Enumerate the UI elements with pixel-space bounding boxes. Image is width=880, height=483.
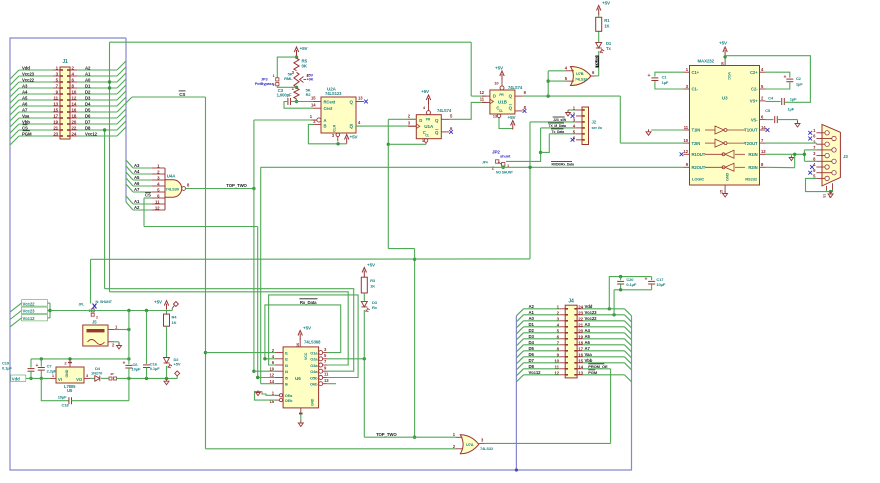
wire U7A out to PROM_OE — [484, 369, 611, 444]
svg-text:D6: D6 — [85, 113, 91, 118]
svg-text:D1: D1 — [85, 83, 91, 88]
diode D4 1N270 — [90, 366, 109, 381]
svg-text:A7: A7 — [585, 346, 591, 351]
wire TOP_TWO jog — [388, 249, 416, 439]
svg-text:16: 16 — [721, 62, 725, 66]
capacitor C17 10uF — [614, 277, 666, 315]
svg-text:+: + — [36, 363, 39, 369]
svg-text:10: 10 — [684, 138, 689, 143]
svg-text:+: + — [648, 73, 651, 79]
capacitor C6 10uF — [123, 311, 141, 379]
ground at J2 pin1 — [566, 110, 577, 116]
svg-text:11: 11 — [54, 96, 59, 101]
svg-text:D5: D5 — [85, 107, 91, 112]
wire OEa OEb tie — [255, 390, 275, 400]
power +5V above U6 — [298, 326, 312, 340]
ground below U3 — [723, 191, 728, 197]
svg-text:+5V: +5V — [421, 89, 430, 94]
svg-text:VCC: VCC — [304, 352, 308, 360]
svg-text:14: 14 — [761, 125, 766, 130]
svg-text:+0K: +0K — [307, 78, 314, 82]
svg-text:A3: A3 — [22, 83, 28, 88]
no-connect X J3 pin1 — [808, 131, 812, 135]
connector J3 DB9 — [813, 124, 848, 197]
wire shunt net y259 — [91, 259, 531, 304]
capacitor C20 0.1uF — [609, 275, 651, 309]
resistor R4 1K — [164, 311, 178, 327]
wire R1IN to J3 pins7 8 — [766, 150, 817, 161]
svg-text:+: + — [784, 75, 787, 81]
svg-text:1µF: 1µF — [662, 80, 669, 85]
svg-text:20: 20 — [72, 120, 77, 125]
wire J3 pin5 ground loop — [806, 178, 834, 197]
svg-text:RML: RML — [284, 76, 293, 81]
svg-text:1µF: 1µF — [790, 96, 797, 101]
resistor R5 0K — [294, 58, 308, 70]
net label CS (top) — [126, 91, 206, 103]
no-connect X on U2A Q pin13 — [364, 100, 368, 104]
wire O3a loop to J1 Vcc12 — [110, 292, 349, 365]
svg-text:U5: U5 — [67, 388, 73, 393]
wire U1B pin13 to +5V — [499, 115, 517, 130]
svg-text:Vcc23: Vcc23 — [22, 71, 35, 76]
svg-text:12: 12 — [155, 206, 160, 211]
LED D2 +5V — [164, 326, 181, 378]
svg-text:Vaa: Vaa — [585, 352, 593, 357]
svg-text:OEb: OEb — [285, 399, 293, 403]
svg-text:D2: D2 — [529, 328, 535, 333]
test pad on rail — [167, 302, 179, 311]
flip-flop U1A 74LS74 — [408, 104, 453, 144]
net labels Vcc22 Vcc23 Vcc12 with bus entries — [10, 300, 50, 327]
wire O2a to D3 — [327, 357, 366, 360]
wire I1 stub — [206, 352, 275, 354]
svg-text:+5V: +5V — [602, 1, 611, 6]
svg-text:TX_M_Data: TX_M_Data — [549, 124, 567, 128]
svg-text:+5V: +5V — [719, 41, 728, 46]
wire U1A D to TOP_TWO net — [387, 119, 417, 248]
wire I4 stub — [254, 370, 275, 372]
svg-text:CS: CS — [145, 193, 151, 198]
svg-text:17: 17 — [53, 114, 58, 119]
svg-text:22: 22 — [72, 126, 77, 131]
svg-text:VS+: VS+ — [750, 99, 758, 104]
svg-text:+5V: +5V — [367, 263, 376, 268]
ground below D2 column — [164, 379, 169, 385]
svg-text:B: B — [324, 124, 327, 129]
svg-text:15: 15 — [311, 95, 316, 100]
ground below U6 — [298, 412, 303, 427]
svg-text:R1IN: R1IN — [748, 152, 757, 157]
no-connect X on U1A pin6 — [449, 130, 453, 134]
or-gate U7A 74LS32 — [453, 432, 494, 454]
power +5V above U3 — [719, 41, 728, 60]
svg-text:J1: J1 — [62, 59, 68, 65]
svg-text:R1OUT: R1OUT — [692, 152, 706, 157]
wire J2 pin4 TX_M_Data net — [506, 123, 576, 161]
svg-text:U1B: U1B — [498, 100, 508, 105]
svg-text:1: 1 — [273, 74, 275, 78]
svg-text:+5V: +5V — [174, 361, 181, 366]
svg-text:D8: D8 — [529, 364, 535, 369]
svg-text:A0: A0 — [85, 77, 91, 82]
svg-text:O3a: O3a — [310, 363, 318, 368]
svg-text:T2OUT: T2OUT — [744, 141, 758, 146]
svg-text:T2IN: T2IN — [692, 141, 701, 146]
wire R2OUT/RXD0 Rx net — [261, 161, 684, 383]
svg-text:10µF: 10µF — [58, 394, 67, 399]
svg-text:T1IN: T1IN — [692, 128, 701, 133]
wire J2 pin3 J23_s/W net — [530, 117, 576, 259]
svg-text:U4A: U4A — [167, 174, 176, 179]
power +5V on rail — [154, 299, 169, 309]
svg-text:A6: A6 — [585, 340, 591, 345]
svg-text:PGM: PGM — [588, 370, 598, 375]
svg-text:1K: 1K — [172, 320, 177, 325]
wire top rail down to U1B D — [471, 42, 486, 96]
IC U3 MAX232 — [684, 59, 767, 195]
svg-text:JPL: JPL — [78, 303, 84, 307]
svg-text:74LS368: 74LS368 — [304, 340, 321, 345]
svg-text:A4: A4 — [585, 328, 591, 333]
J4 right net labels Vdd Vcc23 Vcc22 A3-A7 Vaa Vbb PROM_OE PGM with bus entries — [583, 304, 632, 382]
svg-text:D: D — [419, 118, 422, 123]
svg-text:14: 14 — [270, 379, 275, 384]
capacitor C3 1000pF — [277, 88, 313, 108]
svg-text:O2a: O2a — [310, 357, 318, 362]
svg-text:shunt: shunt — [500, 154, 511, 159]
svg-text:10µF: 10µF — [656, 282, 665, 287]
svg-text:+: + — [645, 277, 648, 283]
svg-text:Vaa: Vaa — [22, 113, 30, 118]
svg-text:JP: JP — [110, 372, 114, 376]
wire net D8 down — [103, 128, 106, 288]
svg-text:Vbb: Vbb — [22, 119, 30, 124]
svg-text:13: 13 — [358, 95, 363, 100]
svg-text:74LS74: 74LS74 — [437, 108, 452, 113]
U4A input net labels A3-A7 A1 A2 with bus entries — [126, 160, 152, 210]
capacitor C7 2.2uF — [36, 359, 58, 380]
capacitor C5 1uF — [765, 107, 800, 128]
svg-text:A0: A0 — [529, 316, 535, 321]
connector J2 ser i/o — [573, 106, 603, 145]
wire TOP_TWO down to U6 I4 — [252, 189, 255, 373]
svg-text:GND: GND — [726, 173, 730, 181]
svg-text:C1: C1 — [662, 75, 668, 80]
connector J1 — [53, 59, 77, 139]
svg-text:A7: A7 — [22, 107, 28, 112]
jumper JP3 PotBypass — [255, 57, 297, 87]
no-connect X on J2 pin2 — [571, 114, 575, 118]
bus J1-J4 address/data bus (blue) — [10, 38, 632, 472]
svg-text:NO SHUNT: NO SHUNT — [496, 171, 514, 175]
wire TOP_TWO bottom — [364, 359, 456, 437]
svg-text:A1: A1 — [85, 71, 91, 76]
svg-text:J4: J4 — [568, 299, 574, 305]
no-connect X J3 pin4 — [810, 165, 814, 169]
svg-text:10: 10 — [72, 90, 77, 95]
svg-text:O5b: O5b — [310, 375, 318, 380]
svg-text:1,000pF: 1,000pF — [277, 93, 292, 98]
svg-text:16: 16 — [72, 108, 77, 113]
svg-text:14: 14 — [72, 102, 77, 107]
wire net Vcc12 down — [109, 136, 111, 292]
J4 left net labels A2 A1 A0 D1-D8 Vcc12 with bus entries — [516, 304, 560, 382]
no-connect X J3 pin6 — [808, 137, 812, 141]
jumper JP2 shunt — [482, 150, 514, 175]
capacitor C2 1uF — [766, 72, 804, 89]
net label CS at U4A pin6 — [144, 193, 152, 227]
svg-text:D3: D3 — [85, 95, 91, 100]
svg-text:J5: J5 — [92, 319, 97, 324]
potentiometer R2 5K — [284, 70, 314, 91]
svg-text:+5V: +5V — [300, 46, 309, 51]
svg-text:D8: D8 — [85, 125, 91, 130]
svg-text:A2: A2 — [85, 65, 91, 70]
svg-text:D2: D2 — [85, 89, 91, 94]
svg-text:A: A — [324, 118, 327, 123]
svg-text:ser i/o: ser i/o — [592, 126, 603, 130]
svg-text:Vcc22: Vcc22 — [585, 316, 598, 321]
svg-text:74LS123: 74LS123 — [325, 91, 342, 96]
svg-text:R2OUT: R2OUT — [692, 165, 706, 170]
svg-text:Vcc22: Vcc22 — [23, 301, 36, 306]
svg-text:C2-: C2- — [751, 87, 758, 92]
no-connect X T1OUT — [766, 128, 770, 132]
svg-text:Vbb: Vbb — [585, 358, 593, 363]
svg-text:Rx: Rx — [372, 305, 378, 310]
svg-text:D: D — [493, 94, 496, 99]
svg-text:+5V: +5V — [495, 66, 504, 71]
regulator U5 L7805 — [50, 359, 90, 393]
wire T2OUT to J3 pin2 — [766, 143, 817, 144]
svg-text:OEa: OEa — [285, 394, 293, 398]
svg-text:21: 21 — [53, 126, 58, 131]
wire R2IN to R1IN net — [766, 153, 797, 168]
wire CS-pin6 net y226 — [144, 226, 258, 228]
svg-text:11: 11 — [155, 200, 160, 205]
svg-text:1µF: 1µF — [787, 107, 794, 112]
svg-text:Vcc12: Vcc12 — [23, 316, 36, 321]
svg-text:C1+: C1+ — [692, 70, 700, 75]
wire U7B inputs from Q net — [547, 71, 567, 96]
svg-text:R1: R1 — [604, 18, 610, 23]
wire O5b loop to I3 — [269, 295, 359, 378]
svg-text:N: SHUNT: N: SHUNT — [96, 300, 113, 304]
svg-text:D4: D4 — [85, 101, 91, 106]
svg-text:Vdd: Vdd — [12, 377, 20, 382]
svg-text:12: 12 — [684, 149, 689, 154]
svg-text:12: 12 — [480, 90, 485, 95]
svg-text:12: 12 — [72, 96, 77, 101]
svg-text:CLR: CLR — [333, 124, 337, 132]
ground loop C18 — [41, 378, 129, 407]
wire O4a loop to J1 D8 — [105, 289, 354, 372]
svg-text:R2IN: R2IN — [748, 165, 757, 170]
svg-text:A1: A1 — [529, 310, 535, 315]
svg-text:A2: A2 — [529, 304, 535, 309]
gate U4A 74LS30 8-input NAND — [152, 164, 190, 211]
svg-text:RXD0/Rx_Data: RXD0/Rx_Data — [552, 163, 575, 167]
capacitor C19 0.1uF — [2, 359, 35, 380]
test pad on VO rail — [175, 371, 180, 379]
svg-text:CS: CS — [22, 125, 28, 130]
wire I6 stub — [261, 383, 275, 385]
svg-text:A6: A6 — [22, 101, 28, 106]
wire TOP_TWO up to U2A A — [254, 120, 311, 189]
svg-text:J3: J3 — [843, 154, 848, 159]
svg-text:13: 13 — [324, 378, 329, 383]
svg-text:C1-: C1- — [692, 87, 699, 92]
svg-text:R4: R4 — [172, 315, 178, 320]
svg-text:A4: A4 — [22, 89, 28, 94]
svg-text:74LS32: 74LS32 — [575, 77, 587, 81]
svg-text:14: 14 — [311, 103, 316, 108]
svg-text:1N270: 1N270 — [91, 371, 103, 376]
jumper JP5 — [109, 372, 177, 380]
svg-text:0K: 0K — [302, 63, 308, 68]
svg-text:C2+: C2+ — [750, 70, 758, 75]
wire Vcc merge — [48, 303, 88, 318]
LED D1 Tx — [596, 31, 612, 53]
svg-text:1µF: 1µF — [796, 81, 803, 86]
connector J4 — [554, 299, 583, 378]
svg-text:10µF: 10µF — [132, 367, 141, 372]
svg-text:Vcc23: Vcc23 — [23, 309, 36, 314]
svg-text:+: + — [123, 360, 126, 366]
svg-text:C5: C5 — [765, 108, 771, 113]
svg-text:19: 19 — [53, 120, 58, 125]
wire net D1/A0 to top rail — [108, 42, 111, 136]
svg-text:Vcc12: Vcc12 — [529, 370, 542, 375]
wire +5V to C4 — [725, 56, 810, 103]
wire U2A Q4 to U1A C — [356, 125, 416, 127]
svg-text:1K: 1K — [604, 24, 609, 29]
flip-flop U1B 74LS74 — [480, 80, 527, 121]
capacitor C16 0.1uF — [143, 311, 160, 379]
svg-text:Vcc22: Vcc22 — [22, 77, 35, 82]
svg-text:23: 23 — [53, 132, 58, 137]
svg-text:U1A: U1A — [424, 124, 434, 129]
svg-text:J2: J2 — [592, 120, 597, 125]
power +5V above U1B — [495, 66, 504, 81]
wire U1B Q to T2IN — [523, 94, 684, 143]
svg-text:U6: U6 — [295, 376, 301, 381]
wire U1A CLR pin1 — [388, 143, 426, 145]
resistor R1 1K — [596, 17, 611, 31]
power +5V above U1A — [421, 89, 431, 104]
svg-text:MAX232: MAX232 — [698, 59, 715, 64]
svg-text:Vdd: Vdd — [22, 65, 30, 70]
svg-text:+5V: +5V — [508, 115, 517, 120]
svg-text:PROM_OE: PROM_OE — [588, 364, 608, 369]
capacitor C1 1uF — [648, 72, 684, 89]
svg-text:VS-: VS- — [751, 117, 758, 122]
svg-text:TOP_TWO: TOP_TWO — [226, 183, 247, 188]
svg-text:16: 16 — [296, 343, 300, 347]
svg-text:VI: VI — [58, 377, 62, 382]
wire U7B out to D1 — [595, 51, 599, 76]
no-connect X R1OUT — [680, 152, 684, 156]
connector J5 power jack — [83, 319, 118, 347]
svg-text:D3: D3 — [529, 334, 535, 339]
svg-text:CL: CL — [425, 134, 429, 138]
wire CS net to U7A pin2 — [206, 448, 457, 450]
wire O6b stub — [327, 383, 336, 385]
wire top rail y42 — [110, 41, 472, 43]
svg-text:Tx: Tx — [606, 46, 611, 51]
svg-text:PotBypass: PotBypass — [255, 82, 274, 86]
net label Vdd — [11, 375, 50, 382]
ground at T1IN — [646, 129, 684, 135]
IC U6 74LS368 hex inverting buffer — [270, 339, 330, 412]
svg-text:Vcc12: Vcc12 — [85, 131, 98, 136]
svg-text:A5: A5 — [585, 334, 591, 339]
svg-text:U3: U3 — [722, 96, 728, 101]
svg-text:D1: D1 — [529, 322, 535, 327]
svg-text:CL: CL — [499, 109, 503, 113]
resistor R2 lower 5K — [294, 86, 311, 99]
svg-text:GND: GND — [311, 398, 315, 406]
svg-text:TXLED: TXLED — [595, 56, 599, 67]
svg-text:RS232: RS232 — [745, 177, 758, 182]
svg-text:CS: CS — [179, 92, 185, 97]
svg-text:D4: D4 — [529, 340, 535, 345]
no-connect X on U1B pin8 — [523, 109, 527, 113]
svg-text:JP4: JP4 — [482, 161, 488, 165]
no-connect X J3 pin9 — [808, 171, 812, 175]
svg-text:D5: D5 — [529, 346, 535, 351]
svg-text:O4a: O4a — [310, 369, 318, 374]
svg-text:+5V: +5V — [350, 135, 359, 140]
no-connect X on J2 pin6 — [571, 138, 575, 142]
svg-text:C2: C2 — [796, 76, 802, 81]
wire J2 pin5 Tx_Data net — [541, 129, 576, 153]
svg-text:R3: R3 — [370, 278, 376, 283]
wire U1A Q to U1B C — [449, 102, 486, 119]
svg-text:18: 18 — [72, 114, 77, 119]
capacitor C4 1uF — [766, 96, 798, 105]
svg-text:O6b: O6b — [310, 382, 318, 387]
svg-text:C18: C18 — [61, 402, 69, 407]
wire ground line U5 — [31, 357, 131, 360]
svg-text:74LS30: 74LS30 — [166, 187, 180, 192]
svg-text:D7: D7 — [529, 358, 535, 363]
svg-text:A3: A3 — [585, 322, 591, 327]
svg-text:Vdd: Vdd — [585, 304, 593, 309]
svg-text:RCext: RCext — [324, 100, 336, 105]
svg-text:15: 15 — [53, 108, 58, 113]
svg-text:+5V: +5V — [303, 326, 312, 331]
svg-text:GND: GND — [65, 369, 69, 377]
svg-text:C4: C4 — [768, 96, 774, 101]
svg-text:74LS74: 74LS74 — [508, 85, 523, 90]
LED D3 Rx — [361, 293, 377, 359]
svg-text:D6: D6 — [529, 352, 535, 357]
jumper JP1 shunt bypass — [50, 300, 167, 319]
svg-text:TOP_TWO: TOP_TWO — [376, 432, 397, 437]
svg-text:VO: VO — [76, 377, 83, 382]
svg-text:U7B: U7B — [576, 71, 584, 76]
power +5V above R5 — [294, 46, 308, 56]
svg-text:LOGIC: LOGIC — [692, 177, 704, 182]
J1 left net labels Vdd Vcc23 Vcc22 A3 A4 A5 A6 A7 Vaa Vbb CS PGM with bus entries — [10, 65, 53, 145]
svg-text:VCC: VCC — [727, 72, 731, 80]
svg-text:74LS32: 74LS32 — [480, 446, 494, 451]
svg-text:O1a: O1a — [310, 350, 318, 355]
or-gate U7B 74LS32 — [565, 66, 595, 86]
J1 right net labels A2 A1 A0 D1-D8 Vcc12 with bus entries — [77, 61, 126, 136]
